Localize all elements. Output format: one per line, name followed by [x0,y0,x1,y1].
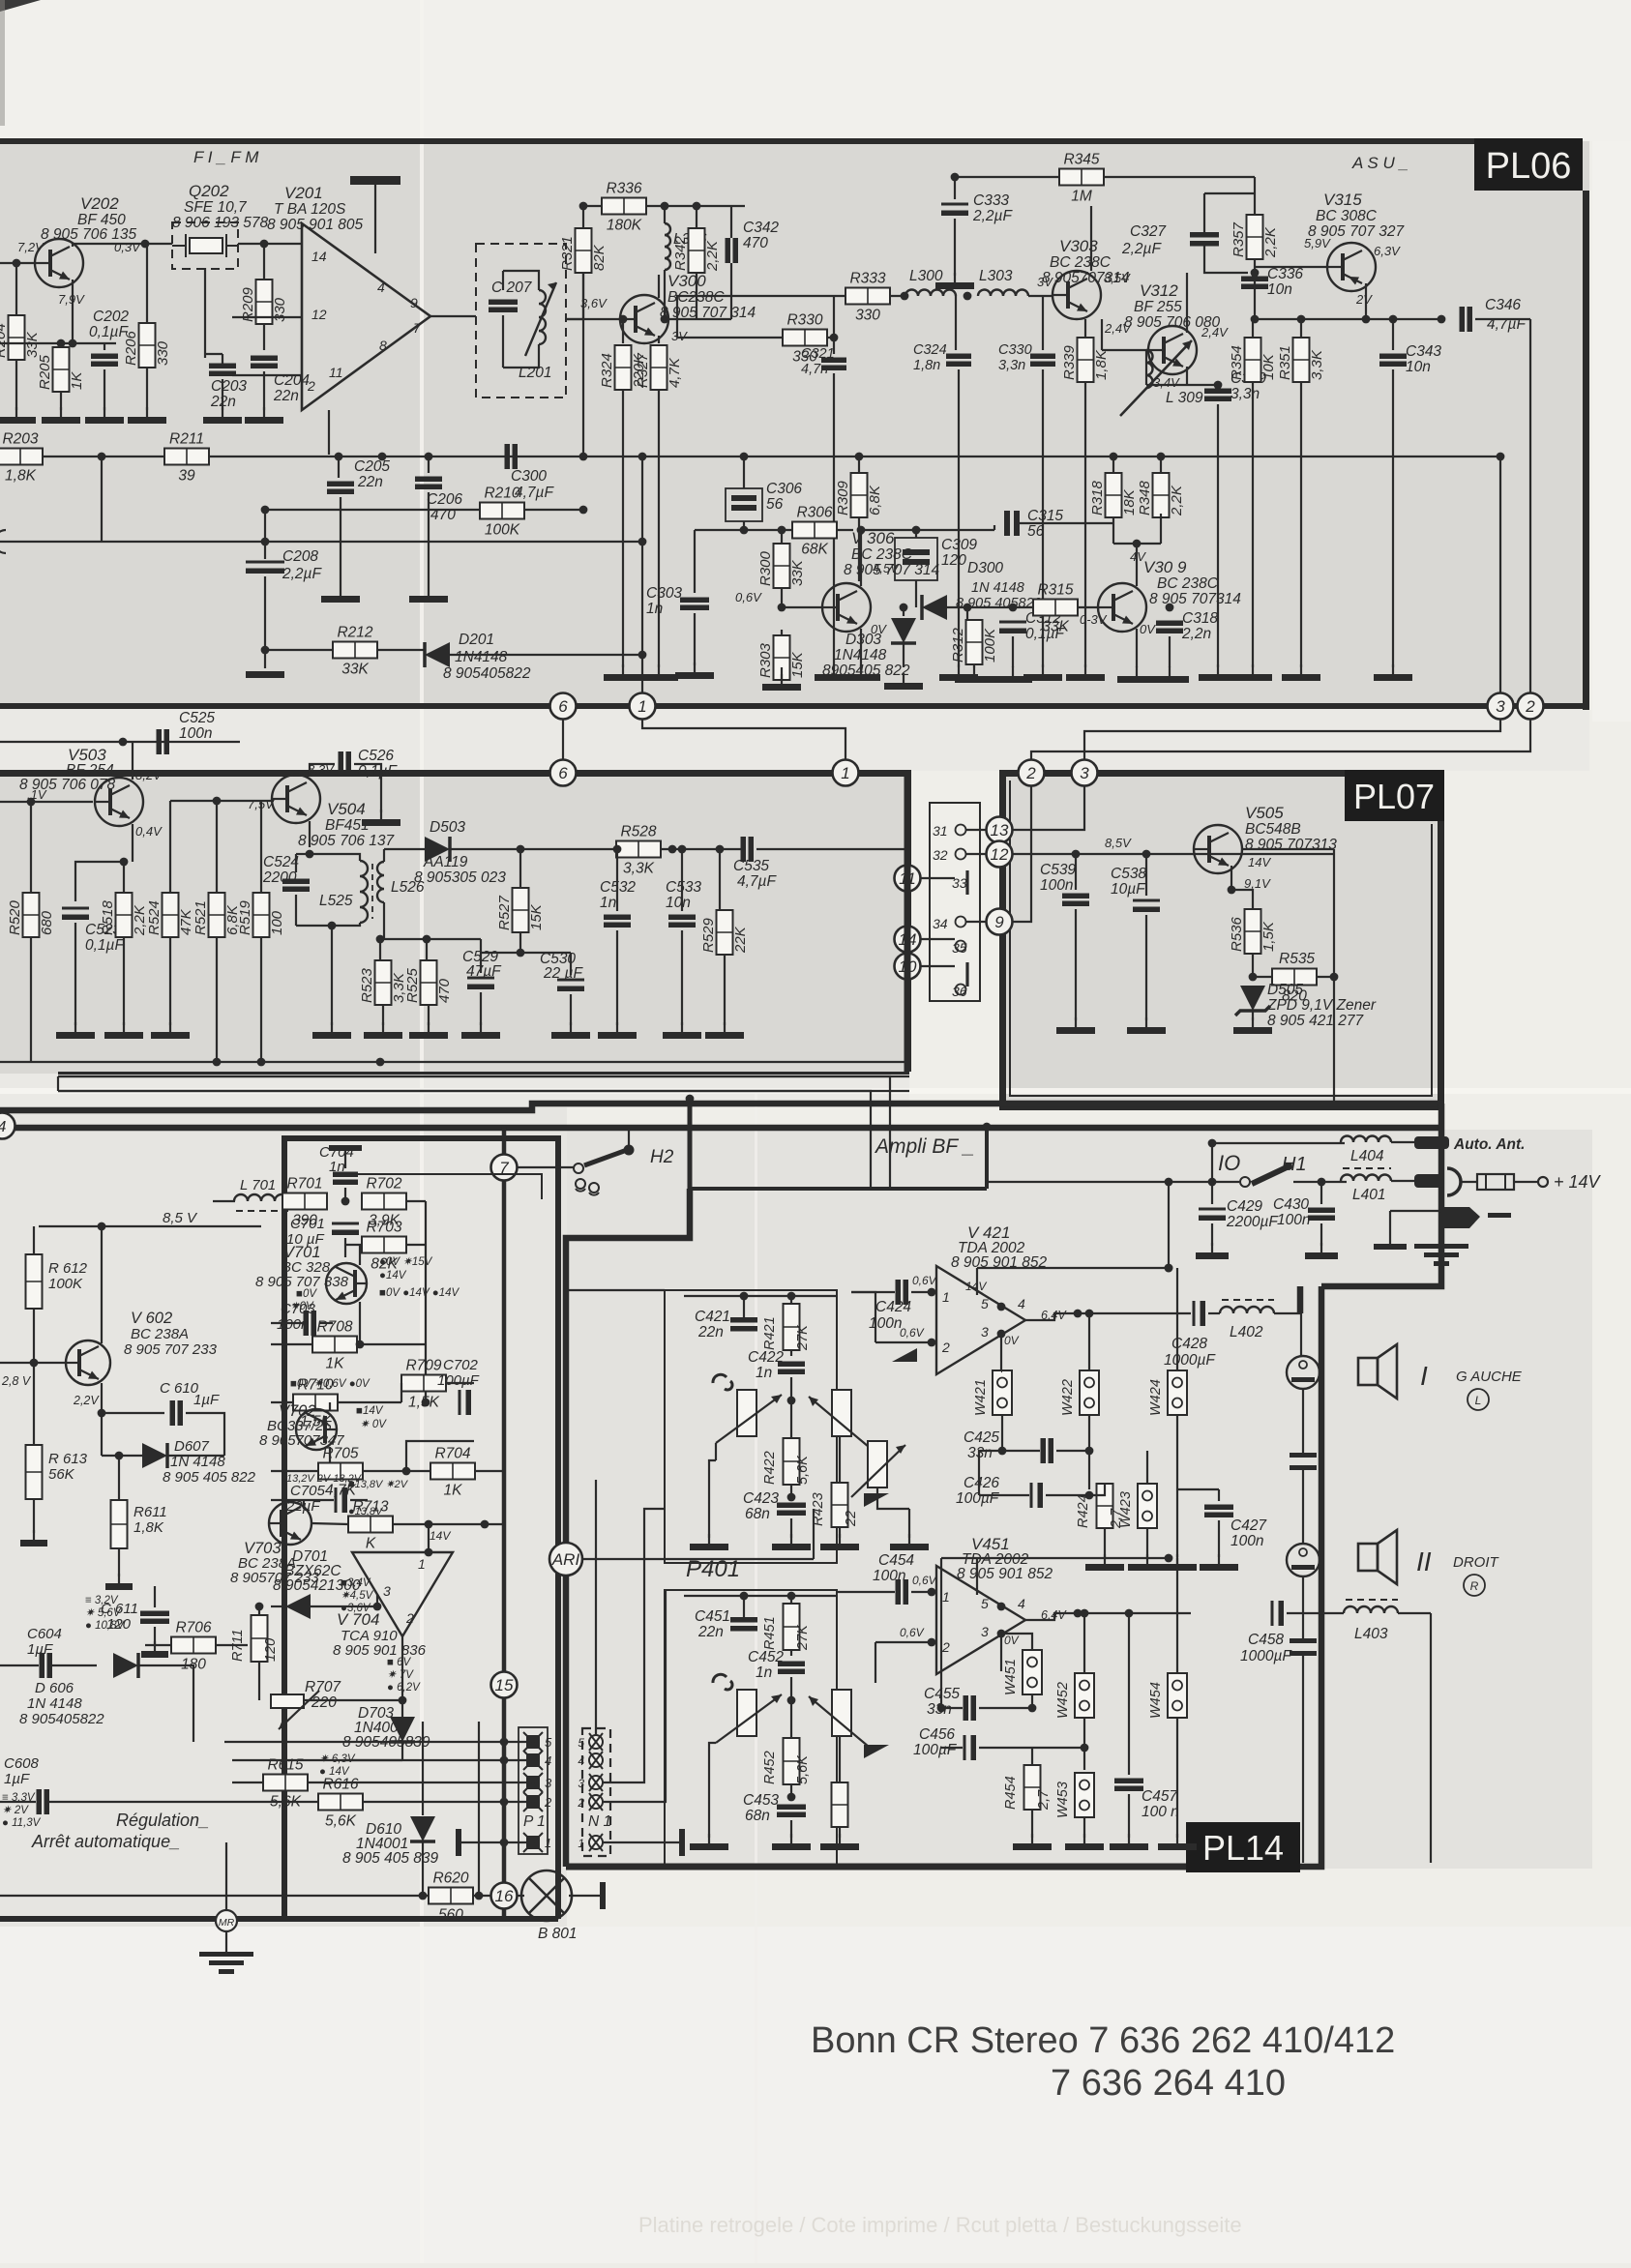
wire row D503 to C535 [450,848,741,850]
svg-text:D503: D503 [430,819,465,836]
transistor V202 [35,239,83,287]
svg-text:C702: C702 [443,1357,479,1373]
inductor L403 [1344,1606,1398,1613]
wire C705 left [271,1499,334,1501]
capacitor C526 [339,751,352,777]
svg-text:120: 120 [263,1638,279,1662]
wire pin31 [966,829,986,831]
wire R706 left [145,1644,171,1646]
wire R422 top [790,1395,792,1438]
svg-text:13,2V 2V 13,2V: 13,2V 2V 13,2V [286,1473,363,1485]
svg-text:1N4148: 1N4148 [455,649,508,665]
svg-text:3,6V: 3,6V [580,296,608,310]
svg-text:0,1µF: 0,1µF [358,763,398,780]
svg-text:■ 6V: ■ 6V [387,1657,412,1668]
wire V451 pin5 up [976,1558,978,1595]
wire W421 top [1001,1370,1003,1371]
node 6 [550,760,577,786]
junction [740,1592,749,1601]
capacitor C703 [304,1311,317,1336]
svg-text:C426: C426 [964,1475,999,1491]
regulator block outline [336,1174,542,1199]
svg-text:31: 31 [933,823,948,839]
svg-text:C318: C318 [1182,610,1218,627]
wire V701 emitter [359,1302,361,1344]
ground [705,1022,744,1039]
ground [104,1022,143,1039]
wire C701 bottom [344,1238,346,1257]
svg-text:T BA 120S: T BA 120S [274,201,346,218]
wire R209 top [263,244,265,280]
junction [1318,1178,1326,1187]
wire R613 bottom [33,1499,35,1533]
fuse [1477,1174,1514,1190]
wire R300 bottom [781,588,783,607]
junction [376,935,385,944]
svg-text:8: 8 [379,338,387,353]
PL06 bottom border [0,703,1589,709]
wire R703 left [345,1244,362,1246]
resistor R709 [401,1358,446,1411]
svg-text:8 905 901 836: 8 905 901 836 [333,1642,427,1659]
marker triangle ch1 a [892,1348,917,1362]
junction [1133,540,1142,548]
svg-text:39: 39 [178,468,195,485]
wire speaker II down [1302,1576,1304,1638]
resistor R342 [672,228,721,273]
svg-text:1N 4148: 1N 4148 [27,1695,82,1712]
svg-text:0,6V: 0,6V [912,1574,937,1587]
wire Q202 to V201 [238,243,302,245]
inductor L701 [234,1194,288,1201]
bus PL14 bottom border [566,1864,1188,1870]
bus PL14 step [688,1099,693,1189]
capacitor C343 [1379,354,1407,368]
svg-text:D 606: D 606 [35,1680,74,1696]
svg-text:R354: R354 [1229,345,1245,380]
capacitor C608 [37,1789,50,1814]
op-amp U V201 triangle [302,223,430,410]
svg-text:R321: R321 [559,236,576,271]
ground [690,1834,728,1850]
svg-text:32: 32 [933,847,948,863]
svg-text:W423: W423 [1118,1491,1134,1528]
svg-text:100µF: 100µF [913,1742,958,1758]
node 9 [987,909,1013,935]
wire L404 drop [1211,1143,1213,1182]
svg-text:C526: C526 [358,748,394,764]
wire V702 collector [329,1402,331,1411]
junction [213,1058,222,1067]
svg-text:R620: R620 [432,1870,468,1887]
svg-text:3V: 3V [671,329,688,343]
svg-text:0,6V: 0,6V [912,1274,937,1287]
chassis ground below MR [199,1842,253,1974]
svg-text:I: I [1420,1361,1428,1391]
wire D505 bottom [1252,1012,1254,1020]
capacitor C428 [1193,1301,1206,1326]
svg-text:●14V: ●14V [379,1270,407,1281]
wire R710 left [271,1401,293,1403]
wire C539 top [1075,854,1077,890]
resistor R312 [950,620,998,664]
potentiometer R707 [271,1691,319,1729]
wire R306 row [695,529,793,531]
svg-text:2,2µF: 2,2µF [282,566,322,582]
junction [422,1399,430,1407]
wire R421 bottom [790,1350,792,1356]
svg-text:2,2K: 2,2K [1169,485,1185,516]
left regulation section grey area [0,1107,567,1927]
ground [772,1534,811,1550]
wire V312 collector [1186,273,1188,333]
wire R209 bottom [263,324,265,350]
svg-text:R309: R309 [835,480,851,515]
svg-text:R211: R211 [169,431,204,448]
ground [884,673,923,690]
junction [213,797,222,806]
wire emitter row [1146,384,1218,386]
junction [1072,850,1081,859]
wire R303 top [781,630,783,636]
wire to R535 [1253,976,1273,978]
ground [890,1534,929,1550]
wire C452 bottom [790,1677,792,1694]
svg-text:R615: R615 [267,1757,303,1774]
svg-text:22 µF: 22 µF [543,965,583,982]
svg-text:5,6K: 5,6K [325,1813,357,1830]
svg-text:R452: R452 [762,1751,778,1784]
capacitor C427 [1204,1505,1233,1518]
wire V201 pin11 [232,374,302,376]
svg-text:0-3V: 0-3V [1080,612,1108,627]
junction [500,1798,509,1807]
wire R525 bottom [428,1005,430,1025]
capacitor C538 [1133,899,1160,913]
wire R704 right [475,1470,503,1472]
capacitor C702 [459,1390,472,1415]
junction [1074,1310,1082,1318]
junction [1362,315,1371,324]
junction [997,1303,1006,1311]
ground [1013,1834,1052,1850]
svg-text:1n: 1n [756,1664,772,1681]
wire R312 bottom [973,663,975,667]
wire V309 emitter [1136,629,1138,667]
svg-text:4,7K: 4,7K [667,357,683,388]
wire C611 top [154,1586,156,1607]
svg-text:2: 2 [544,1795,552,1810]
wire C429 bottom [1211,1223,1213,1246]
pin 33 slide [965,870,968,895]
svg-text:W422: W422 [1060,1379,1076,1416]
junction [928,1588,936,1597]
svg-text:R451: R451 [762,1616,778,1650]
junction [425,453,433,461]
svg-text:C458: C458 [1248,1632,1284,1648]
wire C427 top [1218,1489,1220,1501]
wire border to box1 [566,1289,665,1291]
coil L309 variable [1120,340,1192,416]
svg-text:W453: W453 [1055,1782,1071,1818]
junction [373,1603,382,1611]
wire V421 pin5 up [976,1268,978,1295]
svg-text:47µF: 47µF [466,963,502,980]
svg-text:7 636 264 410: 7 636 264 410 [1051,2063,1286,2104]
svg-text:D303: D303 [845,632,881,648]
svg-text:C346: C346 [1485,297,1521,313]
wire C321 bottom [833,373,835,667]
wire L401 right [1391,1180,1414,1182]
resistor R212 [333,625,377,678]
svg-text:14: 14 [311,249,327,264]
svg-text:33K: 33K [341,662,369,678]
wire V315 base [1255,266,1326,268]
node 3 [1072,760,1098,786]
wire R309 top [858,457,860,473]
pin 31 circle [956,825,966,836]
resistor R333 [845,271,890,324]
svg-text:II: II [1416,1546,1432,1576]
svg-text:8,5V: 8,5V [1105,836,1132,850]
svg-text:C701: C701 [290,1216,325,1232]
wire R300 top [781,530,783,544]
svg-text:BF 255: BF 255 [1134,299,1182,315]
wire pot3 down [877,1487,909,1509]
capacitor C539 [1062,894,1089,907]
svg-text:R611: R611 [133,1504,167,1520]
wire C703 right [319,1322,333,1324]
svg-text:4: 4 [1018,1596,1025,1611]
capacitor C324 [946,354,971,368]
wire D607 left [102,1455,143,1457]
wire W421 bottom [1001,1415,1003,1451]
wire node1 column [641,457,643,692]
junction [517,949,525,957]
svg-text:A S U _: A S U _ [1351,154,1409,172]
svg-text:R518: R518 [100,899,116,935]
switch H1 lever [1252,1167,1287,1184]
svg-text:R525: R525 [404,967,421,1003]
svg-text:0,6V: 0,6V [735,590,762,604]
capacitor C309 [895,538,937,580]
capacitor C525 [157,729,170,754]
resistor R524 [146,893,194,937]
transistor V306 [822,583,871,632]
svg-text:2V: 2V [1355,292,1373,307]
bus PL14 top border [690,1187,987,1191]
wire V704 out [401,1636,403,1717]
node 11 [895,866,921,892]
wire lug link [1390,1210,1441,1212]
capacitor C327 [1190,232,1219,247]
resistor R454 [1024,1765,1041,1810]
ground [1110,1834,1148,1850]
svg-text:C608: C608 [4,1755,40,1772]
diode D503 [425,837,450,862]
wire C608 right [49,1801,97,1803]
wire R613 top [33,1363,35,1445]
svg-text:R424: R424 [1076,1494,1091,1528]
wire R616 left [97,1801,318,1803]
wire W424 top [1176,1268,1178,1370]
junction [1009,604,1018,612]
svg-text:R701: R701 [286,1176,322,1193]
PL06 top border [0,138,1478,144]
wire V602 emitter [101,1383,103,1413]
junction [500,1839,509,1847]
ground [842,664,880,681]
wire W451 bottom [1031,1694,1033,1708]
wire C535 right [756,848,909,850]
svg-text:C604: C604 [27,1626,62,1642]
svg-text:C333: C333 [973,192,1009,209]
resistor R710 [293,1377,338,1430]
junction [356,1340,365,1349]
svg-text:BC 238C: BC 238C [1157,575,1219,592]
svg-text:R713: R713 [352,1499,388,1516]
wire W422 top [1088,1313,1090,1370]
junction [261,506,270,515]
wire C532 top [616,849,618,911]
resistor R327 [635,345,683,390]
svg-text:R342: R342 [672,235,689,271]
wire R620 right [473,1895,490,1897]
ground [690,1534,728,1550]
junction [57,339,66,348]
svg-text:R333: R333 [849,271,885,287]
svg-text:1: 1 [841,764,849,782]
svg-text:22n: 22n [697,1624,724,1640]
svg-text:0,3V: 0,3V [114,240,141,254]
wire C426 link [979,1451,1002,1495]
resistor R209 [240,280,288,324]
capacitor C421 [730,1317,757,1332]
resistor R705 [318,1446,363,1499]
resistor R702 [362,1176,406,1229]
pin N1-5 [578,1733,603,1751]
ground [1023,664,1062,681]
ground [364,1022,402,1039]
ground [312,1022,351,1039]
svg-text:C453: C453 [743,1792,779,1809]
svg-text:12: 12 [991,845,1009,864]
wire C529 top [480,939,482,973]
capacitor C453 [777,1805,806,1818]
trimmer W451 [1023,1650,1042,1694]
wire V300 emitter [658,336,660,343]
resistor R536 [1229,909,1277,954]
capacitor C455 [964,1695,977,1721]
junction [341,1197,350,1206]
svg-text:1: 1 [638,697,646,716]
wire column 440 [425,1245,427,1402]
capacitor C611 [140,1611,169,1625]
svg-text:100n: 100n [277,1316,309,1333]
C704 top bar [329,1145,362,1151]
wire [642,719,845,771]
junction [98,453,106,461]
wire C533 bottom [681,930,683,1025]
ground [141,1641,168,1658]
wire C429 top [1211,1182,1213,1204]
svg-text:W454: W454 [1148,1682,1164,1719]
wire H2 up [628,1130,630,1150]
wire V602 base [0,1362,66,1364]
wire C530 bottom [570,994,572,1025]
pin P1-3 [523,1773,552,1792]
wire V303 emitter [1084,319,1086,338]
ground [461,1022,500,1039]
svg-text:R520: R520 [7,899,23,935]
terminal bar lamp [600,1882,606,1909]
svg-text:4,7µF: 4,7µF [515,485,554,501]
junction [1125,1609,1134,1618]
resistor R422 [784,1438,800,1485]
diode D610 [410,1816,435,1841]
wire link 472-560 [101,457,103,542]
capacitor C202 [91,354,118,368]
speaker icon I [1358,1344,1397,1399]
junction [900,604,908,612]
wire to fuse [1460,1181,1477,1183]
svg-text:330: 330 [272,297,288,322]
wire R524 bottom [169,937,171,1025]
PL14 label box [1186,1822,1300,1872]
wire node9 up [1013,786,1031,922]
wire R709 right [446,1382,474,1384]
capacitor C300 [505,444,519,469]
wire D610 down [422,1841,424,1896]
wire C315 right [1020,522,1113,524]
wire R421 top [790,1296,792,1304]
wire C327 top [1203,193,1205,232]
wire R454 top [1031,1748,1033,1765]
svg-text:D505: D505 [1267,982,1303,998]
wire R451 top [790,1596,792,1604]
svg-text:BC548B: BC548B [1245,821,1301,838]
ground [551,1022,590,1039]
svg-text:1000µF: 1000µF [1240,1648,1292,1664]
pin N1-4 [578,1752,603,1769]
ground [1065,1834,1104,1850]
svg-text:8,5 V: 8,5 V [163,1210,198,1226]
junction [912,526,921,535]
wire R312 top [966,607,968,619]
junction [1085,1491,1094,1500]
wire to C523 [75,862,124,901]
wire C533 top [681,849,683,911]
capacitor C318 [1156,621,1183,634]
wire R348 bottom [1160,514,1162,544]
node 1 [630,693,656,720]
svg-text:ARI: ARI [551,1550,580,1569]
svg-text:C456: C456 [919,1726,955,1743]
junction [740,453,749,461]
capacitor C430 [1308,1208,1335,1222]
wire C312 bottom [1012,636,1014,667]
wire Q202 to C203 [204,268,206,358]
wire V504 base row [170,800,274,802]
ground [203,407,242,424]
wire R318 bottom [1112,514,1114,544]
junction [579,506,588,515]
wire link V300 to row [677,296,827,338]
wire C342 bottom [730,263,732,319]
pin 35 circle [956,941,966,952]
junction [425,1548,433,1557]
wire C321 column [833,296,835,354]
